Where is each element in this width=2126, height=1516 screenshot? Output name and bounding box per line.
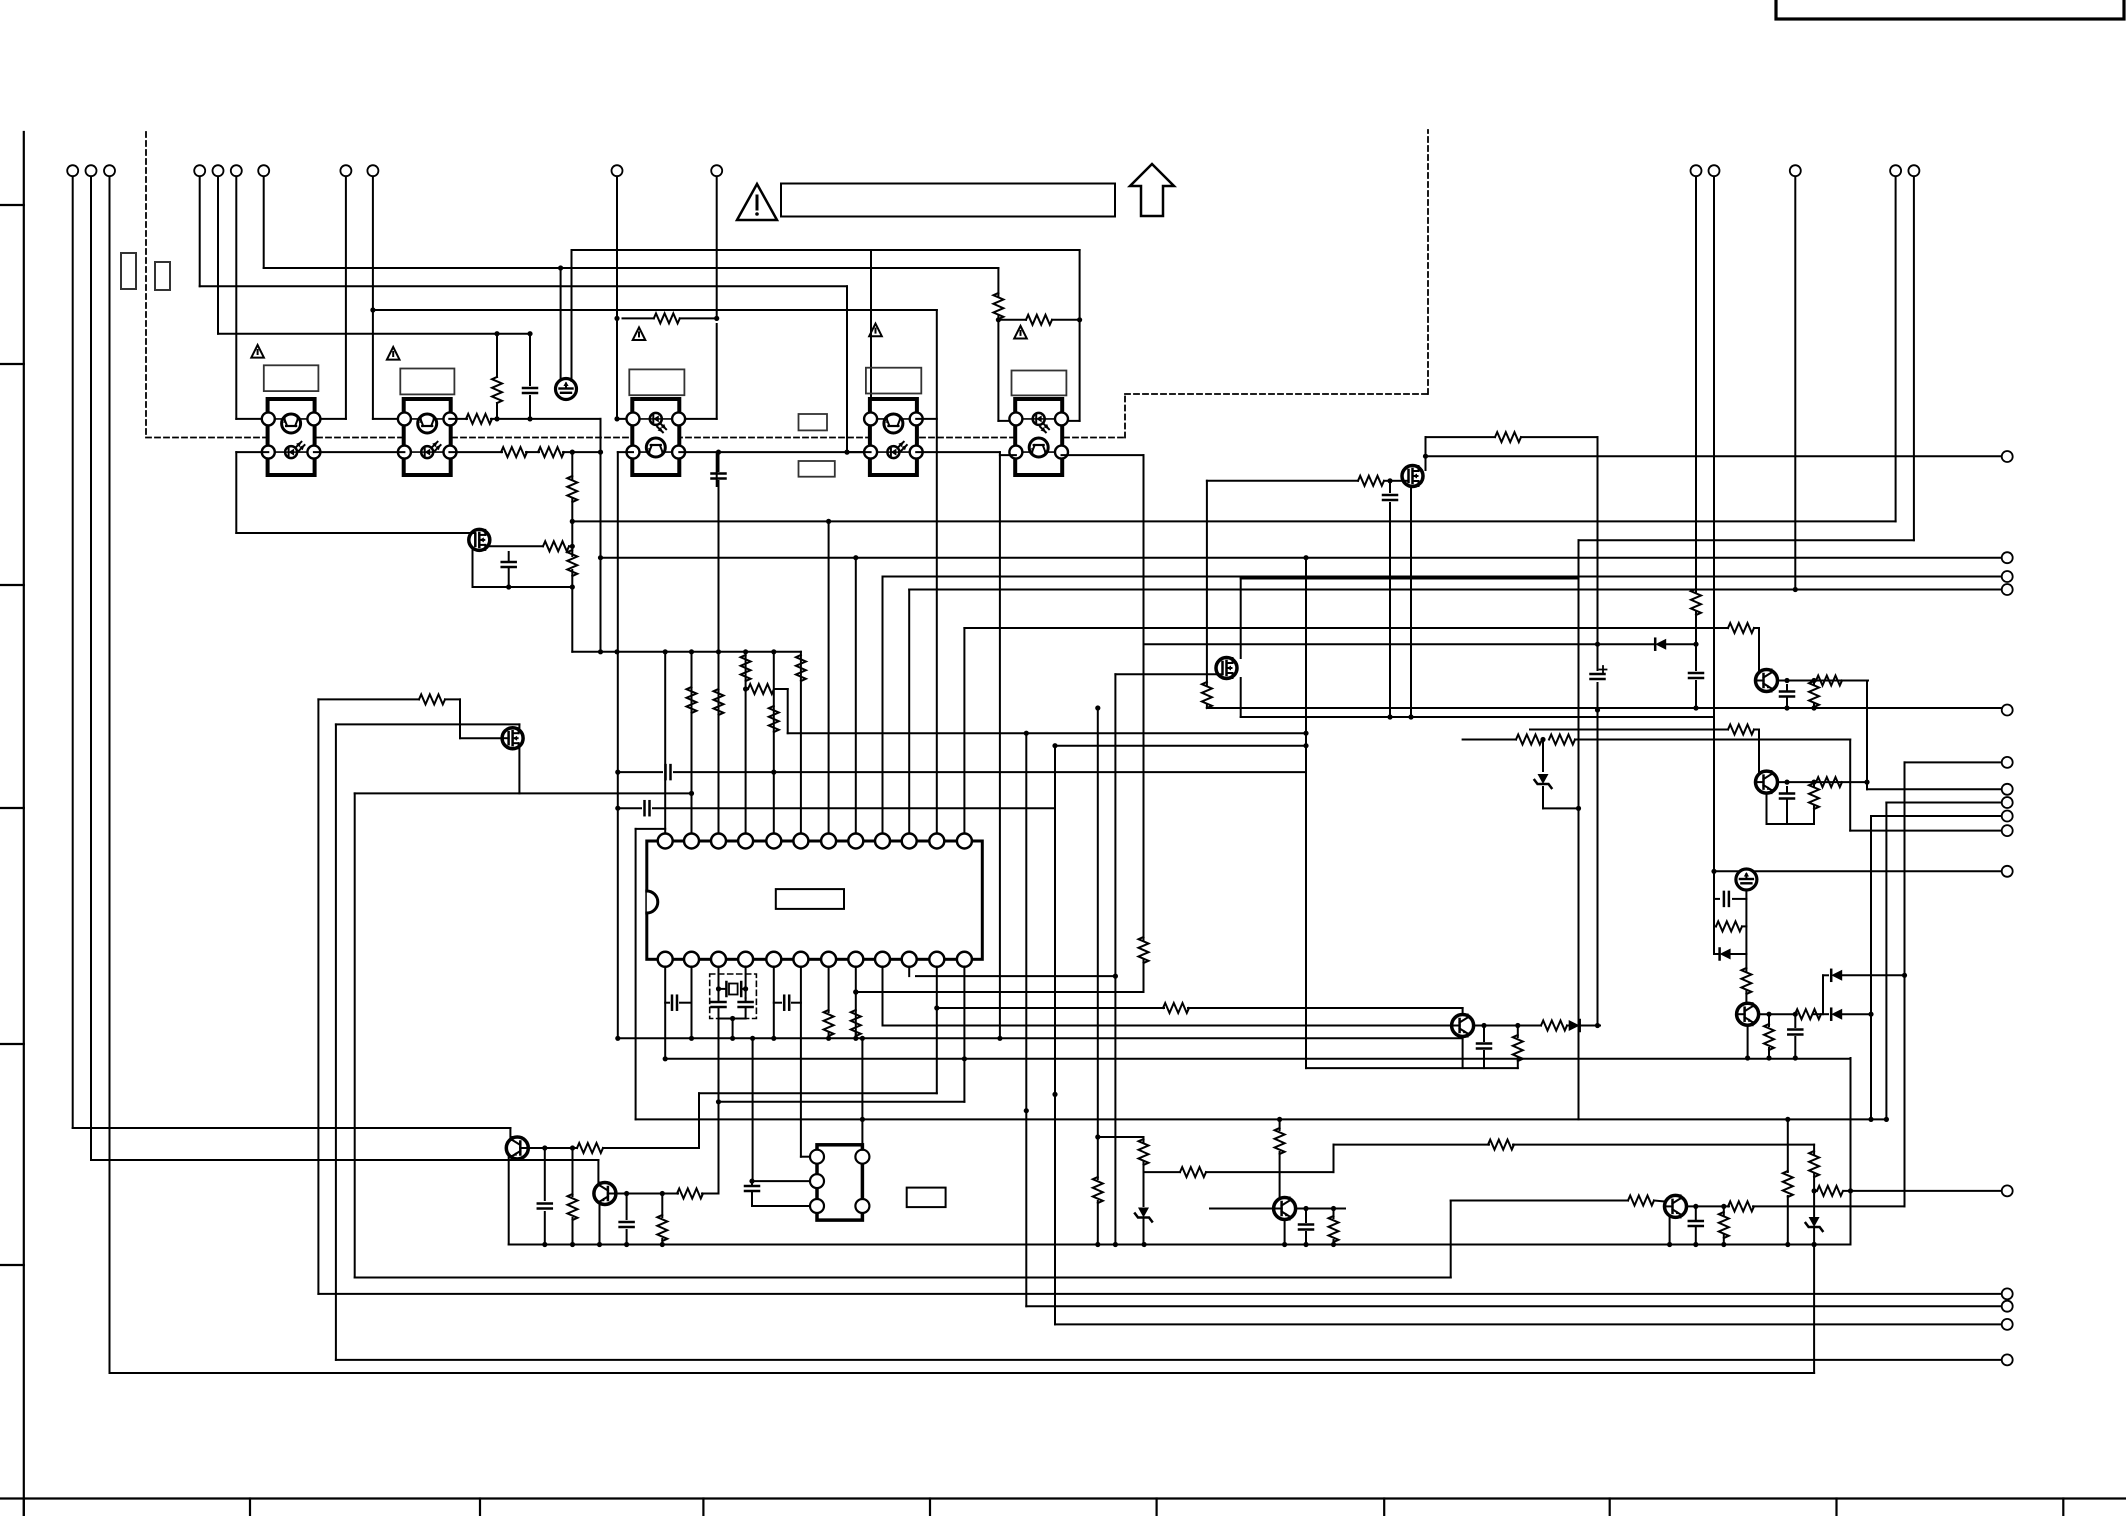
warning mark PC2 bbox=[387, 347, 400, 360]
title block bbox=[1776, 0, 2124, 19]
resistor R on riser 800 bbox=[796, 655, 806, 681]
wire H y576 long bbox=[883, 576, 2002, 578]
wire PC4 lower-right to x999 bbox=[916, 451, 1000, 453]
wire H y557 long bbox=[601, 557, 2002, 559]
IC U2 8-pin bbox=[810, 1145, 869, 1220]
capacitor C at Q5 bbox=[1305, 1209, 1307, 1223]
capacitor C at U2 bbox=[751, 1181, 753, 1184]
wire terminal16 net bbox=[1913, 176, 1915, 540]
wire terminal7 net bbox=[263, 176, 265, 268]
wire PC3 lower-left down to ground bus bbox=[618, 451, 633, 453]
warning mark PC1 bbox=[251, 345, 264, 358]
top connector terminals bbox=[67, 165, 78, 176]
zener diode Z1 bbox=[1542, 740, 1544, 772]
wire H y628 to Q1 base bbox=[964, 627, 1728, 629]
crystal X1 circuit bbox=[710, 974, 757, 1019]
wire x1306 long vertical bbox=[1305, 558, 1307, 1068]
wire x1814 chain with zener bbox=[1813, 1145, 1815, 1155]
wire y699 resistor bbox=[318, 698, 419, 700]
wire Q8 base from y1160 bbox=[597, 1160, 599, 1183]
label box PC3 bbox=[629, 369, 684, 395]
resistor R on t12 vertical bbox=[1691, 589, 1701, 615]
wire M1 drain to x572 bbox=[490, 545, 543, 547]
resistor R on x1143 bbox=[1139, 937, 1149, 963]
wire branch with capacitor to PC2 upper net bbox=[529, 334, 531, 385]
wire Q5 collector chain bbox=[1279, 1119, 1281, 1130]
transistor Q6 bbox=[1665, 1195, 1687, 1217]
resistor R right of Q3 bbox=[1541, 1021, 1567, 1031]
resistor R on riser 718 bbox=[714, 689, 724, 715]
resistor R vert at Q1 bbox=[1813, 681, 1815, 685]
capacitor C on branch bbox=[523, 387, 537, 390]
capacitor C pin5-pin6 bbox=[774, 1002, 781, 1004]
connector box 1 bbox=[121, 253, 136, 289]
resistor R horiz Q1 out bbox=[1816, 676, 1842, 686]
wire pin7b down bbox=[828, 967, 830, 1012]
ground bus lower bbox=[509, 1244, 1851, 1246]
capacitor C at M1 source bbox=[508, 552, 510, 560]
resistor R at Q5 bbox=[1333, 1209, 1335, 1219]
wire M2 drain riser bbox=[1425, 437, 1427, 470]
label box PC1 bbox=[264, 365, 319, 391]
wire PC5 lower-left joins x999 bbox=[1000, 454, 1016, 456]
transistor Q5 bbox=[1274, 1198, 1296, 1220]
wire terminal15 net bbox=[1895, 176, 1897, 521]
wire y871 to terminal bbox=[1714, 870, 2002, 872]
wire M4 source down bbox=[518, 748, 520, 793]
connector box 2 bbox=[155, 262, 170, 290]
wire pin5b down bbox=[773, 967, 775, 1039]
wire x1850 down to bus corner bbox=[1850, 1058, 1852, 1245]
wire PC2 upper-right resistor chain bbox=[449, 418, 467, 420]
wire second drop to ground bbox=[558, 265, 563, 270]
wire y793 long bbox=[355, 792, 692, 794]
wire x1904 to terminal 762 bbox=[1905, 761, 2002, 763]
optocoupler PC5 bbox=[1009, 399, 1068, 475]
wire y480 gate net bbox=[1207, 480, 1358, 482]
wire terminal2 net bbox=[90, 176, 92, 1160]
capacitor C at Q1 bbox=[1786, 685, 1788, 690]
MOSFET Q M1 bbox=[469, 529, 490, 550]
wire terminal8 net bbox=[345, 176, 347, 419]
transistor Q1 bbox=[1756, 670, 1778, 692]
wire terminal9 net bbox=[372, 176, 374, 310]
wire PC3 lower-right to PC4 lower-left bbox=[679, 451, 870, 453]
resistor R left of Q6 bbox=[1451, 1200, 1628, 1202]
wire M3 source down bbox=[1240, 678, 1242, 717]
wire cap T under PC3 bbox=[716, 452, 718, 486]
wire y729 to Q2 base bbox=[1530, 729, 1728, 731]
label box PC2 bbox=[400, 369, 454, 395]
wire pin1b down bbox=[664, 967, 666, 1059]
wire y739 line with resistors bbox=[1463, 739, 1516, 741]
wire Q7 collector bbox=[509, 1128, 511, 1138]
optocoupler PC4 bbox=[864, 399, 923, 475]
wire Q4 output net bbox=[1759, 1013, 1793, 1015]
wire y437 with resistor bbox=[1426, 436, 1496, 438]
wire t11 riser upper segment bbox=[716, 324, 718, 419]
earth ground symbol left bbox=[556, 379, 577, 400]
wire y250 net with ground branch bbox=[572, 249, 1080, 251]
wire terminal6 net bbox=[235, 176, 237, 419]
MOSFET Q M4 bbox=[502, 728, 523, 749]
wire Q5 emitter bbox=[1284, 1220, 1286, 1245]
resistor R on riser 745 bbox=[741, 655, 751, 681]
wire terminal3 net bbox=[109, 176, 111, 1373]
resistor R vert Q4 net bbox=[1768, 1014, 1770, 1026]
wire terminal14 net bbox=[1794, 176, 1796, 589]
wire pin12b down bbox=[963, 967, 965, 1059]
resistor R horiz Q4 net bbox=[1795, 1009, 1821, 1019]
wire x354 to y1277 bbox=[354, 793, 356, 1277]
resistor R above Q4 bbox=[1741, 968, 1751, 994]
ground bus y1038 bbox=[618, 1037, 1463, 1039]
wire x1097 chain bbox=[1097, 708, 1099, 1137]
capacitor C under Q7 bbox=[544, 1148, 546, 1200]
wire pin1 jog x635 bbox=[636, 828, 666, 830]
wire Q3 emitter net bbox=[1474, 1025, 1541, 1027]
wire pin11b down bbox=[936, 967, 938, 1008]
wire x1596 riser with electrolytic cap bbox=[1597, 644, 1599, 670]
wire y456 to terminal bbox=[1426, 455, 2003, 457]
wire y808 with capacitor bbox=[615, 806, 620, 811]
resistor R y1144 bbox=[1488, 1140, 1514, 1150]
MOSFET Q M2 bbox=[1402, 466, 1423, 487]
wire y1277 line bbox=[355, 1277, 1451, 1279]
wire pin4b down bbox=[745, 967, 747, 998]
wire pin3b down bbox=[718, 967, 720, 998]
wire U2 right-top riser bbox=[861, 1038, 863, 1149]
optocoupler PC3 bbox=[627, 399, 686, 475]
bus y1058 under IC bbox=[665, 1058, 1850, 1060]
wire Q8 output right bbox=[616, 1193, 678, 1195]
wire H y644 diode line bbox=[1144, 643, 1655, 645]
resistor R above PC5 left bbox=[993, 293, 1003, 319]
wire H y521 long bbox=[572, 520, 1895, 522]
resistor R under Q3 bbox=[1517, 1026, 1519, 1038]
wire branch to PC2 upper net bbox=[496, 334, 498, 377]
resistor R x1787 chain bbox=[1787, 1119, 1789, 1172]
zener diode Z3 bbox=[1809, 1217, 1820, 1227]
wire Q2 emitter rail bbox=[1778, 781, 1868, 783]
wire x1143 zener chain bbox=[1143, 1137, 1145, 1143]
wire y1119 long rail bbox=[636, 1118, 1887, 1120]
wire PC4 upper-right bbox=[916, 418, 937, 420]
warning mark PC3 bbox=[633, 327, 646, 340]
wire x1079 down to PC5 upper-right bbox=[1079, 250, 1081, 421]
resistor R pin8 to bus bbox=[851, 1010, 861, 1036]
label box PC5 bbox=[1012, 371, 1067, 396]
wire node x572 down through resistors to bus bbox=[571, 452, 573, 480]
resistor R between t10 t11 bbox=[623, 317, 654, 319]
diode D5 bbox=[1567, 1025, 1569, 1027]
wire Q2 bottom rail bbox=[1766, 793, 1768, 824]
transistor Q3 bbox=[1452, 1015, 1474, 1037]
wire x600 down to bus bbox=[600, 419, 602, 652]
wire x1115 down to pin10 line bbox=[1114, 674, 1116, 1244]
wire x1597 down to diode line bbox=[1597, 437, 1599, 644]
optocoupler PC2 bbox=[398, 399, 457, 475]
wire terminal12 net bbox=[1695, 176, 1697, 592]
resistor R at Q6 bbox=[1723, 1206, 1725, 1216]
wire pin6b down to U2 bbox=[800, 967, 802, 1157]
wire M1 source down bbox=[472, 550, 474, 587]
wire x1026 net bbox=[1025, 733, 1027, 1306]
IC U1 main system controller bbox=[647, 834, 983, 967]
wire U2 left pin feeds bbox=[801, 1156, 810, 1158]
right connector terminals bbox=[2002, 451, 2013, 462]
wire H y1101 bbox=[716, 1099, 721, 1104]
warning mark PC4 bbox=[869, 324, 882, 337]
capacitor C under M2 gate node bbox=[1389, 481, 1391, 492]
label box U2 bbox=[907, 1188, 946, 1208]
wire x1055 net bbox=[1054, 808, 1056, 1324]
wire t11 lower segment with capacitor bbox=[718, 452, 720, 471]
wire y724 bbox=[336, 723, 520, 725]
wire Q6 output net bbox=[1687, 1205, 1730, 1207]
warning note box bbox=[781, 184, 1115, 217]
border frame left line bbox=[23, 132, 25, 1516]
wire Q7 base net right bbox=[528, 1147, 577, 1149]
capacitor C vert Q4 net bbox=[1794, 1014, 1796, 1027]
optocoupler PC1 bbox=[262, 399, 321, 475]
wire x318 to y1293 bbox=[317, 699, 319, 1294]
wire Q5 output net bbox=[1296, 1208, 1345, 1210]
wire bus y651 feeding IC pins bbox=[572, 651, 801, 653]
wire IC pin risers bbox=[664, 652, 666, 834]
resistor R toward x1079 bbox=[998, 319, 1026, 321]
wire H y717 line bbox=[1241, 716, 1714, 718]
wire M3 drain up to y578 bbox=[1240, 579, 1242, 659]
rails x1714 x1746 bbox=[1713, 871, 1715, 954]
wire y772 with capacitor bbox=[615, 770, 620, 775]
label box U1 bbox=[776, 889, 844, 909]
resistor R horiz Q2 out bbox=[1816, 777, 1842, 787]
wire terminal10 net bbox=[616, 176, 618, 318]
wire terminal5 net bbox=[217, 176, 219, 334]
wire Q3 bottom rail bbox=[1462, 1037, 1464, 1069]
wire branch to PC4 upper-left bbox=[870, 250, 872, 419]
wire pin8b down bbox=[855, 967, 857, 1039]
wire terminal1 net bbox=[72, 176, 74, 1128]
wire x1207 down bbox=[1206, 481, 1208, 685]
wire x1867 down to terminal 789 bbox=[1866, 681, 1868, 790]
wire x1578 long vertical bbox=[1578, 540, 1580, 1119]
wire risers for pins 7-10 12 bbox=[828, 521, 830, 833]
wire pin10 riser low bbox=[908, 967, 910, 976]
resistor R on riser 773 bbox=[769, 706, 779, 732]
warning mark PC5 bbox=[1014, 326, 1027, 339]
diode D4 bbox=[1814, 1013, 1828, 1015]
wire y1190 resistor to terminal bbox=[1814, 1190, 1816, 1192]
wire x1871 to terminal 816 bbox=[1871, 815, 2002, 817]
wire Q1 emitter rail bbox=[1778, 680, 1869, 682]
capacitor C rail bridge bbox=[1714, 898, 1719, 900]
warning triangle with exclamation bbox=[737, 184, 777, 220]
frame bottom tick marks bbox=[23, 1499, 25, 1516]
capacitor C under Q8 net bbox=[626, 1194, 628, 1220]
wire Q4 emitter to rail 1058 bbox=[1747, 1025, 1749, 1058]
transistor Q4 bbox=[1737, 1003, 1759, 1025]
wire Q7 emitter down bbox=[508, 1157, 510, 1245]
resistor R pin7 to bus bbox=[824, 1010, 834, 1036]
capacitor C at Q2 bbox=[1786, 787, 1788, 792]
wire terminal13 net bbox=[1713, 176, 1715, 871]
connector box 3 bbox=[799, 414, 828, 430]
wire Q8 emitter down bbox=[599, 1204, 601, 1245]
wire PC3 upper-right to t11 riser bbox=[679, 418, 716, 420]
capacitor C x1696 to bus bbox=[1695, 644, 1697, 670]
transistor Q7 bbox=[506, 1137, 528, 1159]
capacitor C under Q3 bbox=[1483, 1026, 1485, 1042]
dashed isolation boundary bbox=[145, 132, 147, 438]
wire x1886 to terminal 802 bbox=[1886, 802, 2001, 804]
frame left tick marks bbox=[0, 204, 24, 206]
label box PC4 bbox=[866, 368, 921, 394]
wire PC5 lower-right to x1143 bbox=[1062, 454, 1144, 456]
border frame bottom line bbox=[0, 1497, 2126, 1499]
connector box 4 bbox=[799, 461, 835, 477]
resistor R under Q7 bbox=[572, 1148, 574, 1196]
wire H y1025 pin9 to Q3 base bbox=[883, 1025, 1452, 1027]
diode D1 bbox=[1655, 639, 1666, 650]
wire terminal11 net bbox=[716, 176, 718, 318]
wire Q5 base stub bbox=[1210, 1208, 1274, 1210]
diode D2 rail bridge bbox=[1714, 953, 1719, 955]
resistor R under Q8 net bbox=[661, 1194, 663, 1218]
wire PC1 lower-left to M1 gate bbox=[236, 451, 268, 453]
earth ground symbol right bbox=[1736, 869, 1757, 890]
wire Q2 base riser bbox=[1758, 730, 1760, 778]
MOSFET Q M3 bbox=[1216, 658, 1237, 679]
wire M2 source down bbox=[1410, 488, 1412, 717]
wire x1850 corner to terminal 830 bbox=[1849, 740, 1851, 831]
zener diode Z2 bbox=[1138, 1208, 1149, 1218]
capacitor C on x716 vertical bbox=[712, 472, 726, 475]
resistor R rail bridge bbox=[1714, 925, 1716, 927]
wire terminal4 net bbox=[199, 176, 201, 286]
wire y733 stub bbox=[788, 732, 1306, 734]
resistor R on riser 691 bbox=[687, 687, 697, 713]
wire x336 to y1360 bbox=[335, 724, 337, 1360]
block arrow up bbox=[1130, 164, 1174, 216]
diode D3 upper bbox=[1822, 975, 1824, 1014]
wire pin2b down bbox=[691, 967, 693, 1039]
wire M4 drain up bbox=[518, 724, 520, 728]
wire y745 stub bbox=[1055, 745, 1306, 747]
wire pin9b down bbox=[882, 967, 884, 1026]
wire PC1 lower-right to PC2 lower-left bbox=[314, 451, 405, 453]
wire H y708 bus right bbox=[1207, 707, 2002, 709]
wire H y589 long bbox=[909, 589, 2002, 591]
wire M3 gate from x1115 bbox=[1115, 673, 1217, 675]
transistor Q2 bbox=[1756, 771, 1778, 793]
capacitor C at Q6 bbox=[1695, 1206, 1697, 1219]
wire H y1093 bbox=[699, 1092, 937, 1094]
wire y1172 resistor bbox=[1144, 1171, 1181, 1173]
wire Q6 emitter bbox=[1669, 1216, 1671, 1245]
capacitor C pin1-pin2 bbox=[665, 1002, 669, 1004]
wire PC2 lower-right resistors bbox=[449, 451, 502, 453]
resistor R vert at Q2 bbox=[1813, 782, 1815, 786]
capacitor C electrolytic on x1596 bbox=[1591, 673, 1605, 676]
transistor Q8 bbox=[594, 1183, 616, 1205]
wire H y1008 pin11 to Q3 collector bbox=[937, 1007, 1164, 1009]
resistor R horizontal y689 bbox=[746, 688, 748, 690]
